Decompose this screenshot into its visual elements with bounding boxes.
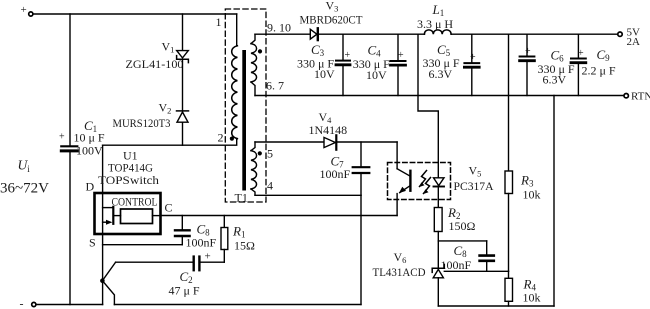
node Ui input labels: [0, 158, 49, 197]
svg-text:V6: V6: [394, 250, 407, 265]
resistor R4: [505, 271, 541, 306]
svg-text:S: S: [89, 236, 96, 250]
wire top rail from + to primary pin 1: [33, 13, 237, 15]
wire RTN rail: [255, 95, 624, 97]
wire V1 branch from top rail: [182, 14, 184, 51]
svg-text:47 μ F: 47 μ F: [169, 284, 200, 298]
wire RTN-to-TL431 ground riser: [553, 96, 555, 307]
svg-text:TL431ACD: TL431ACD: [373, 265, 426, 279]
svg-text:+: +: [345, 50, 351, 61]
terminal RTN output: [624, 91, 650, 103]
svg-text:+: +: [21, 4, 27, 16]
diode V3: [300, 0, 364, 40]
svg-text:+: +: [398, 50, 404, 61]
svg-text:10k: 10k: [523, 291, 541, 305]
wire bias winding output (pin 5): [255, 141, 324, 143]
wire V2 to drain node: [182, 122, 184, 145]
node junction dot (source/return): [100, 278, 105, 283]
transformer T1 bias winding (pins 4-5): [251, 142, 273, 195]
svg-text:6.3V: 6.3V: [543, 73, 567, 87]
svg-text:+: +: [525, 46, 531, 57]
wire node-A drop to opto LED: [418, 34, 438, 178]
optocoupler V5 dashed box: [388, 163, 451, 200]
svg-text:MBRD620CT: MBRD620CT: [300, 13, 364, 27]
capacitor C1: [59, 118, 105, 158]
capacitor C8 (U1 bypass): [175, 216, 217, 250]
wire bias-return riser: [360, 195, 362, 304]
wire source return with junction: [102, 245, 115, 305]
capacitor C5: [423, 34, 480, 95]
svg-text:V3: V3: [326, 0, 339, 14]
terminal - (input negative): [20, 297, 36, 309]
svg-text:3.3 μ H: 3.3 μ H: [417, 17, 453, 31]
svg-text:+: +: [205, 251, 211, 263]
capacitor C6: [520, 34, 575, 95]
svg-text:R3: R3: [520, 173, 534, 189]
transformer T1 dashed boundary: [225, 9, 266, 202]
wire S lead of U1: [103, 234, 183, 245]
shunt regulator V6 TL431: [373, 250, 445, 306]
svg-text:36~72V: 36~72V: [0, 181, 49, 197]
svg-text:ZGL41-100: ZGL41-100: [126, 57, 184, 71]
svg-text:L1: L1: [432, 2, 445, 18]
svg-text:+: +: [59, 132, 65, 143]
svg-text:1N4148: 1N4148: [309, 123, 348, 137]
wire 5V rail L1 to terminal: [451, 33, 618, 35]
wire R2 to C8b: [438, 240, 486, 242]
svg-text:Ui: Ui: [18, 158, 31, 175]
wire bottom rail primary left: [36, 304, 102, 306]
capacitor C9: [571, 34, 616, 95]
capacitor C3: [297, 34, 351, 95]
svg-text:C: C: [165, 201, 173, 215]
wire 5V rail V3 to L1: [319, 33, 425, 35]
wire D lead of U1: [102, 145, 104, 193]
svg-text:-: -: [20, 297, 24, 309]
wire V1 to V2: [182, 59, 184, 111]
transformer T1 primary winding (pins 1-2): [216, 14, 238, 145]
wire V4 to opto collector: [336, 141, 397, 143]
capacitor C4: [353, 34, 406, 95]
wire C1 branch lower: [69, 152, 71, 304]
svg-text:PC317A: PC317A: [454, 179, 494, 193]
svg-text:+: +: [470, 52, 476, 63]
svg-text:2: 2: [218, 131, 224, 145]
svg-text:V5: V5: [469, 164, 482, 179]
svg-text:1: 1: [216, 15, 222, 29]
capacitor C8 (TL431 compensation): [441, 241, 494, 272]
svg-text:10k: 10k: [523, 188, 541, 202]
svg-text:100nF: 100nF: [320, 167, 351, 181]
wire 5V rail: secondary to V3: [255, 33, 310, 35]
svg-text:MURS120T3: MURS120T3: [113, 116, 171, 130]
svg-text:9. 10: 9. 10: [267, 21, 291, 35]
resistor R2: [434, 205, 475, 268]
zener V1: [126, 40, 189, 72]
transistor Q internal MOSFET of U1: [103, 193, 121, 234]
diode V4: [309, 110, 348, 150]
control block of U1: [112, 197, 161, 224]
LED of optocoupler V5: [434, 178, 445, 208]
svg-text:2A: 2A: [627, 36, 641, 48]
svg-text:6.3V: 6.3V: [429, 67, 453, 81]
svg-text:C9: C9: [597, 47, 611, 63]
capacitor C2: [116, 251, 225, 298]
transistor of optocoupler V5: [397, 142, 410, 216]
wire C pin of U1 to optocoupler emitter: [161, 215, 398, 217]
svg-text:TOPSwitch: TOPSwitch: [98, 173, 159, 187]
capacitor C7: [320, 142, 370, 195]
inductor L1: [417, 2, 453, 34]
terminal 5V output: [618, 27, 640, 49]
svg-text:100nF: 100nF: [441, 258, 472, 272]
transformer T1 core: [242, 50, 246, 191]
resistor R3: [505, 171, 541, 271]
svg-text:CONTROL: CONTROL: [112, 197, 158, 209]
wire TL431 ref to divider: [444, 270, 508, 272]
resistor R1: [221, 216, 255, 263]
svg-text:C8: C8: [454, 243, 468, 259]
svg-text:10V: 10V: [366, 68, 387, 82]
svg-text:6. 7: 6. 7: [266, 79, 284, 93]
svg-text:150Ω: 150Ω: [449, 219, 476, 233]
svg-text:D: D: [86, 180, 95, 194]
svg-text:T1: T1: [235, 191, 248, 205]
svg-text:RTN: RTN: [631, 91, 650, 103]
optocoupler V5 labels: [454, 164, 494, 194]
node pin-2 polarity dot: [230, 137, 234, 141]
transformer T1 secondary winding (pins 6.7 - 9.10): [251, 21, 291, 96]
wire pin-4 return: [255, 194, 361, 196]
svg-text:+: +: [578, 48, 584, 59]
wire bottom rail secondary: [438, 305, 554, 307]
svg-text:10V: 10V: [314, 67, 335, 81]
wire drain node (pin 2 of T1 to U1 drain): [103, 139, 237, 146]
wire R3 feed from 5V rail: [508, 34, 510, 171]
wire C1 branch upper: [69, 14, 71, 145]
wire bottom rail primary right: [114, 304, 361, 306]
svg-text:4: 4: [267, 179, 273, 193]
light arrows of optocoupler: [419, 171, 430, 195]
svg-text:R1: R1: [232, 224, 245, 240]
terminal + (input positive): [21, 4, 33, 16]
svg-text:100V: 100V: [76, 144, 103, 158]
svg-text:V1: V1: [162, 40, 175, 55]
svg-text:V2: V2: [159, 101, 172, 116]
svg-text:15Ω: 15Ω: [234, 239, 255, 253]
op IC U1 TOPSwitch outer box: [86, 149, 173, 250]
diode V2: [113, 101, 189, 131]
svg-text:100nF: 100nF: [186, 236, 217, 250]
svg-text:5: 5: [267, 147, 273, 161]
svg-text:10 μ F: 10 μ F: [74, 131, 105, 145]
svg-text:2.2 μ F: 2.2 μ F: [582, 64, 616, 78]
